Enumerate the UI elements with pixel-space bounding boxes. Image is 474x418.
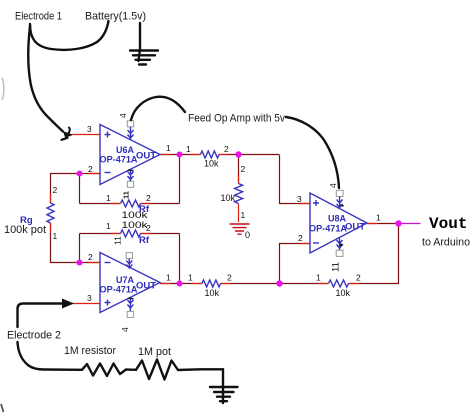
svg-text:4: 4 [120,327,130,332]
svg-text:Feed Op Amp with 5v: Feed Op Amp with 5v [188,113,285,125]
wire: magenta stub right of Vout node [399,223,421,225]
wire: Rf1 row [80,203,180,205]
svg-text:1: 1 [53,231,58,241]
wire: hand-drawn lead Electrode 1 to U6A pin 3 [28,26,63,132]
svg-text:OP-471A: OP-471A [309,224,347,235]
svg-text:100k pot: 100k pot [4,224,46,236]
svg-text:1: 1 [106,221,111,231]
svg-text:3: 3 [87,293,92,303]
wire: Rg bottom net to U7A pin 2 [51,223,101,263]
wire: Rf2 right down to U7A output node [179,234,181,284]
resistor Rf1 100k [121,200,141,207]
junction node Vout [395,220,401,226]
svg-text:10k: 10k [205,288,220,298]
svg-text:2: 2 [298,233,303,243]
svg-text:1: 1 [188,273,193,283]
svg-text:OUT: OUT [345,222,365,233]
svg-text:0: 0 [245,230,250,240]
wire: U8A output to Vout node [367,223,399,225]
svg-text:10k: 10k [221,193,236,203]
svg-text:1: 1 [376,213,381,223]
junction node D (divider tap) [235,151,241,157]
svg-text:1: 1 [186,144,191,154]
svg-text:2: 2 [224,144,229,154]
svg-text:1: 1 [106,193,111,203]
resistor Rg 100k pot [47,203,54,223]
svg-text:1: 1 [166,143,171,153]
svg-text:4: 4 [118,113,128,118]
wire: junction branch up to Rf2 left [79,234,81,263]
junction node F (U8A inverting net) [276,280,282,286]
svg-text:OP-471A: OP-471A [100,285,138,296]
wire: junction branch down to Rf1 left [79,174,81,204]
wire: Rg top net to U6A pin 2 [51,174,101,204]
wire: U7A output row [160,283,280,285]
junction node B (U7A inverting input) [77,260,83,266]
svg-text:OP-471A: OP-471A [100,155,138,166]
ground: battery ground (hand-drawn) [139,23,141,61]
svg-text:2: 2 [146,193,151,203]
svg-text:11: 11 [113,236,123,245]
resistor R3 10k (U7A output) [202,280,221,287]
svg-text:Electrode 1: Electrode 1 [15,11,62,23]
wire: feedback row to Vout vertical [280,224,399,284]
junction node E (U7A output) [177,281,183,287]
svg-text:2: 2 [53,185,58,195]
black curve from Feed text to U8A power pin [286,117,339,188]
resistor: 1M pot (hand-drawn zigzag) [136,360,223,380]
resistor R2 10k (to ground 0) [235,184,243,204]
ground: bottom-right ground (hand-drawn) [222,369,224,403]
power pin 4 (U8A top) [336,190,343,196]
svg-text:2: 2 [88,252,93,262]
red pin stubs [72,134,100,136]
svg-text:100k: 100k [122,210,149,220]
wire: hand-drawn lead Electrode 1 to Battery [30,21,109,50]
wire: Rf2 row [80,233,180,235]
power pin 11 (U7A top) [126,253,132,259]
svg-text:1: 1 [166,273,171,283]
svg-text:2: 2 [241,164,246,174]
svg-text:1: 1 [316,273,321,283]
svg-text:1: 1 [241,210,246,220]
power pin 4 (U7A bottom) [127,311,133,317]
svg-text:OUT: OUT [136,281,156,292]
op-amp U8A [310,193,367,253]
svg-text:Battery(1.5v): Battery(1.5v) [85,11,146,23]
svg-text:OUT: OUT [136,151,156,162]
resistor Rf2 100k [121,230,141,237]
power pin 4 (U6A top) [127,121,133,127]
wire: right branch down to U8A pin 3 [280,155,311,204]
wire: node down to vertical 10k [238,155,240,184]
svg-text:Rf: Rf [139,235,150,246]
svg-text:100k: 100k [122,220,149,230]
svg-text:11: 11 [122,191,131,199]
svg-text:3: 3 [297,194,302,204]
op-amp U6A [100,125,160,185]
wire: Rf1 right up to U6A output node [179,155,181,204]
edge artifact marks [2,78,4,100]
svg-text:11: 11 [331,262,342,272]
wire: branch up to U8A pin 2 [280,244,311,284]
svg-text:4: 4 [328,183,338,188]
wire: hand-drawn Electrode 2 lead with arrow to U7A pin 3 [18,304,67,328]
svg-text:2: 2 [88,164,93,174]
svg-text:1M resistor: 1M resistor [64,345,116,357]
ground: node 0 [230,224,250,234]
op-amp U7A [100,253,160,313]
svg-text:Vout: Vout [429,215,468,233]
svg-text:2: 2 [356,273,361,283]
svg-text:10k: 10k [204,159,219,169]
resistor R4 10k (feedback U8A) [329,280,349,287]
power pin 11 (U6A bottom) [127,181,133,187]
svg-text:2: 2 [227,273,232,283]
svg-text:10k: 10k [336,288,351,298]
power pin 11 (U8A bottom) [336,250,343,256]
black curve to Feed text (left) [131,97,185,120]
wire: U6A output row [160,154,279,156]
resistor R1 10k (U6A output) [201,151,220,158]
svg-text:3: 3 [87,124,92,134]
svg-text:1M pot: 1M pot [138,346,171,358]
junction node C (U6A output) [177,152,183,158]
svg-text:to Arduino: to Arduino [422,237,470,249]
junction node A (U6A inverting input) [77,171,83,177]
svg-text:Electrode 2: Electrode 2 [7,330,61,342]
resistor: 1M resistor (hand-drawn zigzag) [82,364,136,377]
